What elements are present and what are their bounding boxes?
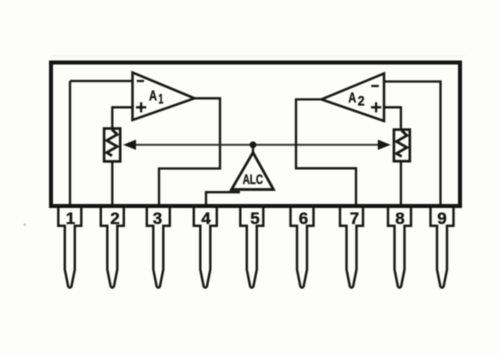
scan speck <box>24 224 26 226</box>
svg-text:3: 3 <box>153 209 162 228</box>
svg-text:7: 7 <box>350 209 359 228</box>
wire: left resistor bottom to pin 2 <box>111 162 113 204</box>
wire: down to left resistor top <box>111 106 113 128</box>
wire: A1 non-inverting input horizontal <box>112 106 132 108</box>
pin 5 <box>240 206 263 288</box>
A2 minus sign <box>371 85 379 87</box>
op-amp A2 triangle <box>322 74 385 122</box>
A1 plus sign <box>136 102 146 112</box>
pin 9 <box>431 206 454 288</box>
wire: right resistor bottom to pin 8 <box>400 162 402 205</box>
resistor R-right zigzag <box>397 131 407 157</box>
pin 1 <box>58 206 81 288</box>
wire: A1 output feedback to pin 3 <box>159 98 220 204</box>
wire: A1 inverting input to pin 1 (horizontal) <box>70 80 133 82</box>
wire: horizontal control line between resistors <box>127 144 387 146</box>
svg-text:ALC: ALC <box>243 171 264 187</box>
A2 plus sign <box>371 102 381 112</box>
faint scan ghost line above body <box>52 55 465 56</box>
wire: vertical down to pin 1 <box>69 81 71 204</box>
wire: A2 non-inverting input to right resistor top <box>384 107 401 129</box>
wire: stub from node to ALC apex <box>252 145 254 154</box>
svg-text:A: A <box>149 87 157 104</box>
svg-text:1: 1 <box>66 209 75 228</box>
svg-text:8: 8 <box>395 209 404 228</box>
svg-text:9: 9 <box>437 209 446 228</box>
svg-text:2: 2 <box>358 92 365 108</box>
svg-text:A: A <box>348 89 356 106</box>
wire: A2 output feedback to pin 7 <box>296 99 356 204</box>
svg-text:1: 1 <box>158 90 163 106</box>
resistor R-right body <box>394 130 410 162</box>
pin 8 <box>388 206 411 288</box>
wire: ALC output to pin 4 <box>206 192 240 204</box>
IC body outline <box>51 63 460 207</box>
pin 3 <box>147 206 170 288</box>
ALC block triangle <box>232 153 274 190</box>
op-amp A1 triangle <box>133 73 195 121</box>
svg-text:6: 6 <box>299 209 308 228</box>
arrowhead pointing right at R-right <box>378 140 389 149</box>
svg-text:5: 5 <box>250 209 259 228</box>
pin 2 <box>101 206 124 288</box>
pin 7 <box>340 206 363 288</box>
resistor R-left body <box>104 129 120 162</box>
pin 4 <box>194 206 217 288</box>
pin 6 <box>291 206 314 288</box>
wire: A2 inverting input to pin 9 <box>384 82 441 205</box>
svg-text:2: 2 <box>110 209 119 228</box>
svg-text:4: 4 <box>201 209 211 228</box>
A1 minus sign <box>137 80 144 82</box>
junction node dot <box>250 141 257 148</box>
resistor R-left zigzag <box>107 130 117 156</box>
arrowhead pointing left at R-left <box>124 140 135 149</box>
